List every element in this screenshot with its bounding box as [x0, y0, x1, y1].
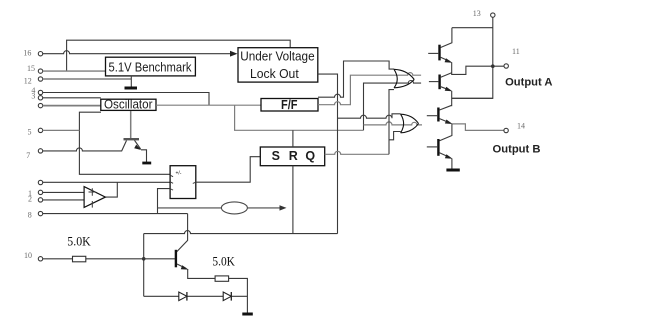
terminal pin 1	[28, 189, 43, 198]
svg-text:Oscillator: Oscillator	[104, 98, 153, 112]
wire: latch Q output to OR verticals with hop	[325, 151, 389, 154]
svg-text:5.0K: 5.0K	[212, 254, 235, 269]
terminal pin 9 comp (unlabeled)	[38, 180, 42, 184]
svg-text:5.1V Benchmark: 5.1V Benchmark	[109, 61, 193, 75]
svg-text:+/-: +/-	[176, 171, 182, 177]
resistor R1 5.0K	[67, 233, 91, 261]
wire: F/F mid output through OR1 (hop over UVLO vertical)	[318, 73, 421, 105]
wire: pin 3 to oscillator	[43, 97, 101, 99]
wire: pin 2 to error amplifier	[43, 199, 84, 201]
wire: pin 10 through resistor to driver base	[43, 258, 175, 260]
wire: top rail from pin16 branch to UVLO top	[67, 40, 291, 71]
transistor Q2 output A bottom	[429, 73, 452, 92]
svg-text:5.0K: 5.0K	[67, 233, 91, 248]
ground under discharge transistor	[142, 162, 151, 165]
terminal pin 10	[24, 251, 43, 261]
wire: output B node to pin 14	[452, 124, 504, 130]
transistor Q3 output B top	[427, 105, 453, 124]
svg-text:Output A: Output A	[505, 76, 552, 88]
svg-text:10: 10	[24, 251, 32, 260]
wire: latch bottom vertical to bottom rail	[292, 166, 294, 234]
transistor Q1 output A top	[428, 45, 452, 63]
svg-text:13: 13	[473, 9, 481, 18]
or-gate U3 output B	[401, 114, 419, 133]
terminal pin 7	[26, 149, 42, 161]
label Output A	[505, 76, 552, 88]
svg-text:Q: Q	[305, 149, 315, 163]
op-amp error amplifier A1	[84, 187, 105, 208]
wire: unlabeled pin to oscillator	[43, 105, 101, 107]
transistor Q5 oscillator discharge	[124, 111, 147, 162]
wire: comparator output to S-R latch S input	[196, 157, 260, 183]
wire: stub to OR2 bottom input	[389, 132, 401, 140]
svg-text:Lock Out: Lock Out	[250, 67, 299, 81]
arrowhead of ellipse line	[280, 205, 287, 210]
svg-text:R: R	[289, 149, 298, 163]
wire: R input vertical from ramp bus to latch top	[292, 130, 294, 147]
box: Oscillator	[101, 98, 156, 112]
terminal pin 2	[28, 194, 43, 203]
terminal pin 15	[27, 64, 43, 74]
svg-text:15: 15	[27, 64, 35, 73]
resistor R2 5.0K	[212, 254, 235, 282]
wire: pin8 vertical down to driver collector with hop crossing	[177, 214, 188, 252]
or-gate U2 output A	[394, 69, 414, 88]
svg-text:3: 3	[31, 91, 35, 100]
wire: Q2 emitter to VC corner and T3 collector	[452, 91, 493, 106]
terminal pin 11	[504, 47, 520, 68]
wire: oscillator output to F/F	[156, 104, 261, 106]
box: PWM comparator	[170, 166, 196, 199]
wire: T4 collector riser	[440, 124, 452, 141]
svg-text:Output B: Output B	[493, 144, 541, 156]
wire: pin 8 soft start line	[43, 213, 188, 215]
box: 5.1V Benchmark U1	[106, 57, 196, 76]
wire: soft start riser to comparator input 3	[158, 189, 171, 214]
wire: Q1 collector rail	[441, 28, 493, 48]
wire: pin 12 to ground stem under benchmark box	[43, 76, 132, 87]
wire: comp pin and op-amp output to comparator input 2	[43, 182, 170, 197]
wire: diode row	[144, 295, 248, 297]
terminal pin 8	[28, 211, 43, 220]
label Output B	[493, 144, 541, 156]
wire: pin 5 to ramp vertical	[43, 129, 80, 131]
wire: UVLO line to OR2 top input with hops	[338, 114, 401, 118]
wire: OR2 mid line from ramp riser with hop	[364, 122, 423, 125]
wire: bottom rail	[144, 231, 338, 234]
svg-text:2: 2	[28, 194, 32, 203]
svg-text:11: 11	[512, 47, 520, 56]
terminal pin 16	[23, 48, 42, 57]
svg-text:14: 14	[517, 121, 525, 130]
current source ellipse	[221, 202, 247, 214]
box: S R Q latch	[260, 147, 324, 166]
wire: pin 7 to discharge transistor with hop	[43, 141, 127, 151]
terminal pin 14	[504, 121, 525, 132]
svg-text:16: 16	[23, 48, 31, 57]
wire: UVLO output down the long vertical	[318, 74, 338, 234]
terminal unlabeled below pin 3	[38, 103, 42, 107]
svg-text:12: 12	[24, 77, 32, 86]
terminal pin 4	[31, 86, 42, 95]
box: F/F flip flop	[261, 98, 318, 112]
diode D2	[223, 292, 231, 301]
transistor Q6 driver	[176, 250, 248, 313]
wire: pin 4 down to oscillator output line	[43, 93, 209, 106]
wire: ramp riser through OR1 second line	[364, 80, 422, 130]
terminal pin 12	[24, 77, 43, 86]
diode D1	[179, 292, 187, 301]
terminal pin 3	[31, 91, 42, 100]
arrowhead into UVLO	[230, 51, 238, 57]
svg-text:7: 7	[26, 151, 30, 160]
wire: F/F top output to OR1 top input (hop over UVLO vertical)	[318, 61, 394, 97]
ground under diode network	[242, 313, 253, 316]
wire: oscillator bottom-left to comparator input 1	[79, 112, 170, 174]
wire: left vertical of bottom rail down to diodes	[142, 234, 146, 297]
svg-text:Under Voltage: Under Voltage	[240, 50, 314, 64]
wire: ellipse line with arrow toward latch vertical	[158, 207, 282, 209]
ground under benchmark box	[125, 87, 138, 90]
svg-text:8: 8	[28, 211, 32, 220]
terminal pin 13	[473, 9, 495, 18]
wire: Q riser to OR1 bottom input	[389, 90, 394, 155]
svg-text:5: 5	[28, 128, 32, 137]
wire: pin 1 to error amplifier	[43, 191, 84, 193]
ground under Q4	[446, 169, 459, 172]
wire: oscillator branch down and right (ramp bus)	[235, 105, 364, 130]
wire: pin 15 to 5.1V benchmark box	[43, 70, 106, 72]
svg-text:F/F: F/F	[281, 98, 298, 112]
wire: output A node zigzag to pin 11	[452, 63, 505, 75]
wire: pin 16 to UVLO with hop over vertical	[43, 51, 232, 54]
terminal pin 5	[28, 128, 43, 137]
transistor Q4 output B bottom	[427, 139, 453, 169]
box: Under Voltage Lock Out	[238, 48, 318, 82]
svg-text:S: S	[272, 149, 280, 163]
wire: VC rail from pin 13 down and left to Q2 emitter	[452, 17, 493, 98]
